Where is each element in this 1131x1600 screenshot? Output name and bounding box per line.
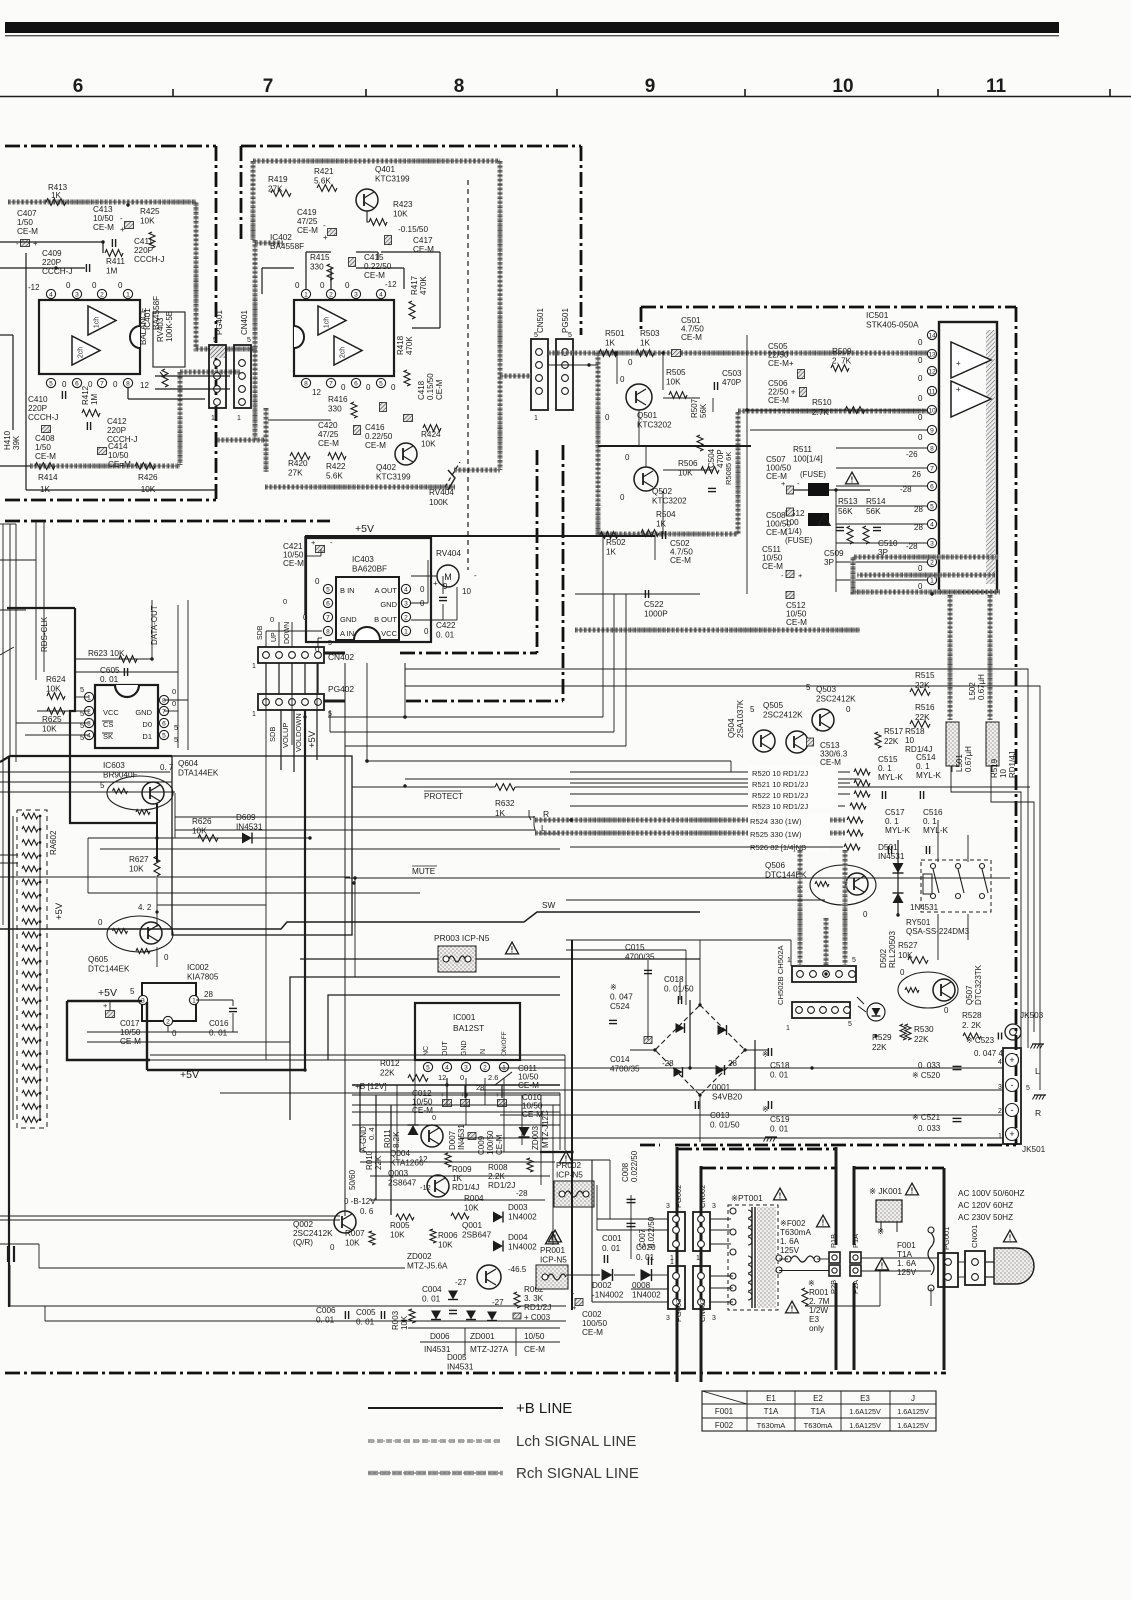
svg-text:2: 2 [329, 292, 333, 299]
svg-text:+: + [311, 538, 316, 547]
diode D004 [493, 1233, 537, 1252]
label JK001 [869, 1183, 919, 1196]
svg-text:D002: D002 [592, 1281, 612, 1290]
svg-text:10K: 10K [129, 865, 144, 874]
svg-text:KTC3199: KTC3199 [375, 175, 410, 184]
svg-text:12: 12 [140, 381, 149, 390]
svg-text:1.6A125V: 1.6A125V [897, 1421, 929, 1430]
diode ZD003 [519, 1110, 551, 1150]
svg-text:BR9040F: BR9040F [103, 771, 138, 780]
svg-text:R423: R423 [393, 200, 413, 209]
op-amp IC401 body [39, 300, 140, 374]
svg-text:6: 6 [75, 381, 79, 388]
svg-text:0: 0 [432, 1113, 436, 1122]
svg-text:8: 8 [126, 381, 130, 388]
svg-text:R425: R425 [140, 207, 160, 216]
svg-text:-12: -12 [28, 283, 40, 292]
svg-text:RDS-CLK: RDS-CLK [40, 616, 49, 652]
svg-text:P1A: P1A [851, 1234, 860, 1248]
resistor R007 [345, 1229, 375, 1248]
connector P1A [850, 1234, 861, 1263]
wire ch502 buses [800, 850, 845, 966]
svg-text:T630mA: T630mA [757, 1421, 787, 1430]
svg-text:R513: R513 [838, 497, 858, 506]
hybrid IC501 pins [927, 330, 936, 584]
svg-text:1N4531: 1N4531 [910, 903, 939, 912]
svg-text:BA4558F: BA4558F [270, 242, 304, 251]
svg-text:E3: E3 [860, 1394, 870, 1403]
svg-text:Q504: Q504 [727, 718, 736, 738]
svg-text:R632: R632 [495, 799, 515, 808]
regulator IC403 pins [303, 577, 429, 654]
svg-text:CE-M: CE-M [365, 441, 386, 450]
capacitor C011 [495, 1064, 539, 1090]
svg-text:56K: 56K [838, 507, 853, 516]
svg-text:Q402: Q402 [376, 463, 396, 472]
wire Lch signal bus R413 [8, 202, 257, 349]
svg-text:2: 2 [404, 615, 408, 622]
resistor R503 [636, 329, 660, 356]
svg-text:4: 4 [87, 733, 91, 740]
svg-text:!: ! [554, 1233, 557, 1242]
resistor R411 [105, 250, 125, 276]
capacitor C514 [916, 753, 942, 799]
fuse PR003 [434, 933, 490, 972]
svg-text:C408: C408 [35, 434, 55, 443]
svg-text:100/50: 100/50 [486, 1130, 495, 1155]
svg-text:3: 3 [666, 1203, 670, 1210]
resistor R004 [451, 1194, 484, 1219]
svg-text:Q506: Q506 [765, 861, 785, 870]
wire Rch bus R510 row [738, 410, 930, 411]
svg-text:1N4002: 1N4002 [508, 1243, 537, 1252]
capacitor C413 [93, 205, 134, 234]
resistor R416 [328, 395, 357, 418]
svg-text:VCC: VCC [381, 629, 397, 638]
svg-text:1: 1 [252, 711, 256, 718]
svg-text:Q502: Q502 [652, 487, 672, 496]
warning fuse lower [818, 515, 830, 526]
svg-text:0. 047 4: 0. 047 4 [974, 1049, 1003, 1058]
svg-text:1000P: 1000P [644, 610, 668, 619]
svg-text:VCC: VCC [103, 708, 119, 717]
resistor R625 [42, 708, 65, 734]
svg-text:L501: L501 [955, 754, 964, 772]
wire bus into CN501 [500, 374, 531, 379]
svg-text:0. 033: 0. 033 [918, 1061, 941, 1070]
svg-text:1: 1 [211, 415, 215, 422]
svg-text:R502: R502 [606, 538, 626, 547]
svg-text:C510: C510 [878, 539, 898, 548]
svg-text:0. 1: 0. 1 [885, 817, 899, 826]
op-amp IC401 pins bottom [46, 378, 132, 387]
svg-text:5: 5 [80, 685, 84, 694]
svg-text:CN003: CN003 [698, 1299, 707, 1322]
capacitor C508 [766, 508, 794, 537]
svg-text:1M: 1M [90, 394, 99, 405]
connector CN001 [965, 1225, 985, 1285]
svg-text:0.022/50: 0.022/50 [630, 1150, 639, 1182]
svg-text:only: only [809, 1324, 825, 1333]
capacitor C422 [436, 597, 456, 639]
svg-text:C006: C006 [316, 1306, 336, 1315]
ground top power [764, 1137, 778, 1142]
svg-text:1: 1 [787, 957, 791, 964]
svg-text:0. 033: 0. 033 [918, 1124, 941, 1133]
op-amp IC402 pins bottom [301, 378, 385, 387]
transistor Q502 [620, 453, 687, 506]
svg-text:Q004: Q004 [390, 1149, 410, 1158]
connector P1B [829, 1234, 840, 1263]
svg-text:C422: C422 [436, 621, 456, 630]
svg-text:D1: D1 [142, 732, 152, 741]
svg-text:0: 0 [605, 413, 610, 422]
capacitor C415 [349, 253, 392, 280]
svg-text:R507: R507 [690, 398, 699, 418]
svg-text:C017: C017 [120, 1019, 140, 1028]
potentiometer RV403 balance [139, 308, 185, 387]
svg-text:1: 1 [252, 663, 256, 670]
wire IC501 output bus [575, 557, 1000, 720]
svg-text:IC002: IC002 [187, 963, 209, 972]
svg-text:IC403: IC403 [352, 555, 374, 564]
connector CN501 [531, 308, 548, 422]
svg-text:10: 10 [928, 408, 936, 415]
svg-text:GND: GND [380, 600, 397, 609]
wire label rows bottom [408, 1328, 560, 1356]
capacitor C517 [885, 808, 911, 854]
svg-text:PG002: PG002 [674, 1185, 683, 1208]
svg-text:1/2W: 1/2W [809, 1306, 828, 1315]
wire output rows R524-26 [535, 814, 863, 852]
capacitor C412 [87, 417, 137, 444]
svg-text:MYL-K: MYL-K [878, 773, 904, 782]
resistor R528 [962, 1011, 982, 1039]
transistor Q003 [388, 1169, 449, 1197]
svg-text:39K: 39K [12, 435, 21, 450]
capacitor C521 [912, 1113, 962, 1133]
svg-text:0: 0 [118, 281, 123, 290]
resistor R623 [88, 649, 137, 662]
transistor Q503 [806, 683, 856, 731]
svg-text:0. 1: 0. 1 [923, 817, 937, 826]
svg-text:L502: L502 [968, 682, 977, 700]
svg-text:1: 1 [192, 998, 196, 1005]
transistor Q401 [356, 165, 410, 211]
svg-text:RV403: RV403 [156, 317, 165, 342]
svg-text:C503: C503 [722, 369, 742, 378]
wire bus CN401 column [217, 240, 283, 472]
capacitor C014 [610, 1037, 652, 1074]
svg-text:0. 01: 0. 01 [422, 1295, 441, 1304]
diode ZD002 [407, 1252, 448, 1271]
resistor array RA602 [13, 810, 65, 1128]
svg-text:0: 0 [918, 433, 923, 442]
capacitor C518 [762, 1048, 790, 1080]
svg-text:2: 2 [166, 1019, 170, 1026]
svg-text:0: 0 [164, 953, 169, 962]
connector PG003 [666, 1259, 685, 1322]
svg-text:C411: C411 [134, 237, 153, 246]
svg-text:22K: 22K [380, 1069, 395, 1078]
svg-text:1K: 1K [606, 548, 617, 557]
fuse PR001 [536, 1230, 568, 1289]
label -27 b [492, 1298, 504, 1307]
svg-text:0. 01: 0. 01 [209, 1029, 228, 1038]
svg-text:5: 5 [247, 337, 251, 344]
svg-text:-: - [797, 479, 800, 488]
svg-text:(FUSE): (FUSE) [800, 470, 826, 479]
resistor R418 [396, 335, 414, 386]
svg-text:ZD001: ZD001 [470, 1332, 495, 1341]
svg-text:AC 120V 60HZ: AC 120V 60HZ [958, 1201, 1013, 1210]
hybrid IC501 label [866, 310, 919, 330]
resistor R514 [863, 497, 886, 544]
svg-text:5: 5 [806, 683, 811, 692]
svg-text:R509: R509 [832, 347, 852, 356]
svg-text:ZD002: ZD002 [407, 1252, 432, 1261]
op-amp IC402 pins top [301, 289, 385, 298]
svg-text:0: 0 [918, 564, 923, 573]
svg-text:CE-M: CE-M [17, 227, 38, 236]
svg-text:C504: C504 [707, 448, 716, 468]
svg-text:2SC2412K: 2SC2412K [293, 1229, 333, 1238]
svg-text:AC 230V 50HZ: AC 230V 50HZ [958, 1213, 1013, 1222]
label F001 [876, 1226, 917, 1277]
svg-text:CN501: CN501 [536, 308, 545, 333]
ground jk503 [1031, 1044, 1045, 1049]
svg-text:R419: R419 [268, 175, 288, 184]
op-amp IC501 amp1 [951, 342, 991, 378]
svg-text:1K: 1K [51, 191, 61, 200]
svg-text:Q002: Q002 [293, 1220, 313, 1229]
resistor R424 [421, 425, 441, 449]
svg-text:(FUSE): (FUSE) [785, 536, 813, 545]
diode D003 [493, 1203, 537, 1223]
svg-text:ON/OFF: ON/OFF [501, 1031, 508, 1056]
svg-text:CCCH-J: CCCH-J [28, 413, 58, 422]
svg-text:0. 047: 0. 047 [610, 993, 633, 1002]
svg-text:C015: C015 [625, 943, 645, 952]
svg-text:R424: R424 [421, 430, 441, 439]
svg-text:!: ! [822, 1218, 825, 1227]
svg-text:※ C520: ※ C520 [912, 1071, 941, 1080]
svg-text:125V: 125V [897, 1268, 917, 1277]
svg-text:0: 0 [863, 910, 868, 919]
svg-text:R506: R506 [678, 459, 698, 468]
svg-text:C013: C013 [710, 1111, 730, 1120]
svg-text:2.2K: 2.2K [488, 1172, 505, 1181]
svg-text:0 -B-12V: 0 -B-12V [344, 1197, 376, 1206]
transistor Q506 [765, 861, 876, 919]
svg-text:10K: 10K [438, 1241, 453, 1250]
svg-text:C407: C407 [17, 209, 37, 218]
svg-text:22K: 22K [914, 1035, 929, 1044]
svg-text:10K: 10K [393, 210, 408, 219]
svg-text:2: 2 [930, 560, 934, 567]
svg-text:-0.15/50: -0.15/50 [398, 225, 428, 234]
ac plug [985, 1248, 1034, 1284]
svg-text:R522 10 RD1/2J: R522 10 RD1/2J [752, 791, 808, 800]
motor RV404 [433, 549, 477, 596]
connector CH502B [786, 1002, 852, 1032]
svg-text:470K: 470K [419, 276, 428, 295]
wire dash-dot CN402 line [324, 450, 537, 653]
svg-text:SDB: SDB [268, 727, 277, 742]
svg-text:CE-M: CE-M [413, 245, 434, 254]
svg-text:R007: R007 [345, 1229, 365, 1238]
resistor R001 [802, 1279, 830, 1333]
connector PG501 [556, 308, 573, 410]
svg-text:5: 5 [130, 987, 135, 996]
resistor R530 [905, 1024, 934, 1044]
svg-text:0: 0 [625, 453, 630, 462]
svg-text:C605: C605 [100, 666, 120, 675]
svg-text:R415: R415 [310, 253, 330, 262]
svg-text:E1: E1 [766, 1394, 776, 1403]
svg-text:22K: 22K [872, 1043, 887, 1052]
resistor R415 [310, 253, 333, 280]
svg-text:9: 9 [930, 428, 934, 435]
wire speaker feeds right [938, 766, 1034, 1048]
svg-text:1K: 1K [452, 1174, 463, 1183]
vertical label DATA-OUT [150, 605, 159, 645]
svg-text:8: 8 [304, 381, 308, 388]
svg-text:R414: R414 [38, 473, 58, 482]
wire feeds to PG002 [540, 940, 668, 1310]
wire sw line [0, 901, 700, 929]
svg-text:0: 0 [420, 585, 425, 594]
svg-text:0.67µH: 0.67µH [964, 746, 973, 772]
svg-text:-: - [323, 221, 326, 230]
svg-text:9: 9 [645, 76, 656, 97]
svg-text:1: 1 [237, 415, 241, 422]
svg-text:PR003 ICP-N5: PR003 ICP-N5 [434, 933, 490, 943]
svg-text:-: - [781, 571, 784, 580]
svg-text:+: + [1009, 1129, 1014, 1139]
svg-text:+: + [323, 233, 328, 242]
svg-text:!: ! [911, 1186, 914, 1195]
diode zd small [448, 1291, 458, 1300]
resistor R527 [898, 941, 928, 963]
fuse PR002 [554, 1151, 594, 1207]
capacitor C421 [283, 538, 333, 568]
svg-text:Q604: Q604 [178, 759, 198, 768]
wire caps row nets [352, 1078, 560, 1112]
svg-text:27K: 27K [288, 469, 303, 478]
svg-text:NC: NC [423, 1046, 430, 1056]
svg-text:2. 2K: 2. 2K [962, 1021, 982, 1030]
svg-text:R626: R626 [192, 817, 212, 826]
connector CN003 [693, 1266, 716, 1322]
svg-text:!: ! [881, 1261, 884, 1270]
svg-text:C414: C414 [108, 442, 128, 451]
svg-text:C415: C415 [364, 253, 384, 262]
connector PG401 [209, 310, 226, 422]
svg-text:B OUT: B OUT [374, 615, 397, 624]
resistor R509 [831, 347, 852, 371]
svg-text:1M: 1M [106, 267, 118, 276]
svg-text:1: 1 [930, 578, 934, 585]
svg-text:IC603: IC603 [103, 761, 125, 770]
svg-text:R520 10 RD1/2J: R520 10 RD1/2J [752, 769, 808, 778]
svg-text:R418: R418 [396, 335, 405, 355]
svg-text:C509: C509 [824, 549, 844, 558]
svg-text:100K-5B: 100K-5B [165, 311, 174, 342]
svg-text:10/50: 10/50 [120, 1028, 141, 1037]
svg-text:22K: 22K [915, 681, 930, 690]
svg-text:R521 10 RD1/2J: R521 10 RD1/2J [752, 780, 808, 789]
svg-text:CE-M: CE-M [93, 223, 114, 232]
wire input left [0, 242, 216, 490]
+5V bus lower [147, 1002, 305, 1081]
svg-text:R523 10 RD1/2J: R523 10 RD1/2J [752, 802, 808, 811]
svg-text:R528: R528 [962, 1011, 982, 1020]
svg-text:10K: 10K [345, 1239, 360, 1248]
capacitor C018 [664, 975, 694, 1004]
wire pr003 line [300, 958, 700, 960]
capacitor C007 [638, 1216, 656, 1248]
svg-text:+5V: +5V [180, 1069, 199, 1081]
svg-text:1/50: 1/50 [35, 443, 51, 452]
svg-text:C413: C413 [93, 205, 113, 214]
svg-text:R008: R008 [488, 1163, 508, 1172]
svg-text:4: 4 [998, 1059, 1002, 1066]
capacitor C520 [912, 1061, 962, 1080]
svg-text:5: 5 [174, 735, 178, 744]
svg-text:CE-M: CE-M [518, 1081, 539, 1090]
svg-text:0.22/50: 0.22/50 [364, 262, 392, 271]
svg-text:※: ※ [762, 1105, 769, 1114]
terminal JK501 [998, 1048, 1046, 1154]
svg-text:1.6A125V: 1.6A125V [849, 1421, 881, 1430]
svg-text:R510: R510 [812, 398, 832, 407]
svg-text:1: 1 [786, 1025, 790, 1032]
capacitor C016 [209, 1008, 237, 1037]
svg-text:CE-M: CE-M [364, 271, 385, 280]
svg-text:5: 5 [852, 957, 856, 964]
svg-text:0: 0 [460, 1073, 464, 1082]
svg-text:T630mA: T630mA [780, 1228, 811, 1237]
capacitor C408 [35, 426, 56, 462]
resistor R519 [990, 751, 1017, 778]
svg-text:Q605: Q605 [88, 955, 108, 964]
svg-text:R518: R518 [905, 727, 925, 736]
svg-text:0: 0 [424, 627, 429, 636]
capacitor C510 [873, 527, 898, 557]
svg-text:1: 1 [304, 292, 308, 299]
svg-text:CE-M+: CE-M+ [768, 359, 794, 368]
svg-text:IC402: IC402 [270, 233, 292, 242]
capacitor C524 [609, 970, 652, 1023]
svg-text:-: - [1011, 1105, 1014, 1115]
label +B 12V [355, 1082, 387, 1091]
svg-text:KTC3199: KTC3199 [376, 473, 411, 482]
svg-text:4. 2: 4. 2 [138, 903, 152, 912]
svg-text:IC001: IC001 [453, 1012, 476, 1022]
svg-text:+5V: +5V [98, 987, 117, 999]
relay RY501 label [906, 918, 970, 936]
svg-text:M: M [444, 572, 452, 582]
diode D501 [878, 840, 939, 915]
resistor R504 [641, 510, 676, 536]
label PT001 [731, 1188, 787, 1203]
wire speaker nets [460, 1000, 1003, 1138]
capacitor C419 [297, 208, 337, 242]
svg-text:2: 2 [100, 292, 104, 299]
svg-text:R627: R627 [129, 855, 149, 864]
svg-text:※ C521: ※ C521 [912, 1113, 941, 1122]
